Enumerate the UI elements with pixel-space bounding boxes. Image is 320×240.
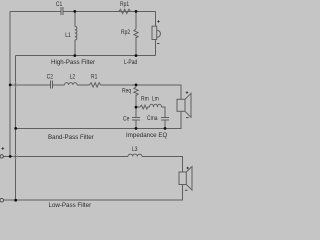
svg-text:Rp1: Rp1 bbox=[120, 1, 129, 8]
svg-text:L2: L2 bbox=[70, 74, 76, 81]
midrange + mark bbox=[186, 91, 188, 93]
wire band-pass row y=84.5 bbox=[10, 85, 181, 99]
junction Ce bottom bbox=[135, 127, 138, 130]
hop crossing BP row over -bus bbox=[14, 83, 18, 87]
wire Rm-Lm branch row y=107 bbox=[136, 107, 165, 128]
inductor L3 bbox=[128, 154, 142, 156]
junction BP input on +bus bbox=[9, 84, 12, 87]
svg-text:Low-Pass Filter: Low-Pass Filter bbox=[49, 202, 92, 209]
svg-text:L1: L1 bbox=[65, 32, 71, 39]
wire L1 branch vertical bbox=[74, 11, 76, 55]
resistor R1 bbox=[90, 83, 101, 87]
resistor Rp2 bbox=[134, 29, 138, 38]
svg-text:Lm: Lm bbox=[152, 96, 159, 103]
svg-text:Ce: Ce bbox=[123, 116, 129, 123]
wire +bus vertical x=10 bbox=[9, 11, 11, 156]
svg-text:R1: R1 bbox=[91, 74, 97, 81]
hop crossing LP row over -bus bbox=[14, 154, 18, 158]
input + terminal bbox=[0, 155, 3, 158]
woofer speaker bbox=[179, 167, 192, 191]
wire low-pass row y=156 bbox=[3, 156, 182, 172]
svg-text:C2: C2 bbox=[47, 74, 53, 81]
capacitor C1 bbox=[61, 7, 63, 15]
junction LPF input on +bus bbox=[9, 155, 12, 158]
inductor L2 bbox=[64, 83, 77, 85]
wire Req-Ce branch vertical bbox=[135, 85, 137, 128]
junction C1-L1 bbox=[73, 10, 76, 13]
svg-text:High-Pass Filter: High-Pass Filter bbox=[51, 59, 95, 66]
junction Cma bottom bbox=[164, 127, 167, 130]
input + label bbox=[1, 147, 4, 150]
junction Req top bbox=[135, 84, 138, 87]
wire top rail (HPF input, y=11) bbox=[10, 10, 155, 12]
svg-text:L-Pad: L-Pad bbox=[124, 60, 137, 67]
wire Rp2 branch vertical bbox=[135, 11, 137, 55]
input - terminal bbox=[0, 198, 4, 202]
resistor Rp1 bbox=[119, 9, 131, 13]
capacitor C2 bbox=[50, 81, 52, 89]
svg-text:Rm: Rm bbox=[141, 96, 149, 103]
junction EQ rail on -bus bbox=[14, 127, 17, 130]
svg-text:Rp2: Rp2 bbox=[121, 30, 130, 37]
svg-text:Req: Req bbox=[122, 88, 131, 95]
capacitor Ce bbox=[132, 118, 140, 121]
junction Rm branch bbox=[135, 106, 138, 109]
junction bottom rail on -bus bbox=[14, 199, 17, 202]
junction Rp2 bottom bbox=[135, 54, 138, 57]
junction L1 bottom bbox=[73, 54, 76, 57]
capacitor Cma bbox=[161, 118, 169, 121]
inductor Lm bbox=[150, 104, 162, 107]
wire HPF bottom rail y=55.5 bbox=[16, 55, 156, 57]
midrange speaker bbox=[177, 93, 191, 117]
svg-text:Impedance EQ: Impedance EQ bbox=[126, 132, 167, 139]
svg-text:Band-Pass Filter: Band-Pass Filter bbox=[48, 134, 94, 141]
tweeter - mark bbox=[157, 43, 159, 45]
tweeter + mark bbox=[157, 20, 159, 22]
midrange - mark bbox=[186, 117, 189, 119]
junction Rp1-Rp2 bbox=[135, 10, 138, 13]
woofer - mark bbox=[185, 189, 187, 191]
inductor L1 bbox=[75, 26, 77, 40]
resistor Req bbox=[134, 87, 138, 96]
wire tweeter branch vertical bbox=[155, 11, 157, 55]
wire bottom rail y=200 bbox=[4, 185, 183, 201]
wire EQ bottom rail y=128.4 bbox=[16, 111, 181, 128]
svg-text:C1: C1 bbox=[56, 1, 62, 8]
resistor Rm bbox=[140, 105, 148, 109]
svg-text:Cma: Cma bbox=[147, 115, 158, 122]
tweeter speaker bbox=[152, 26, 160, 39]
wire -bus vertical x=16 bbox=[15, 56, 17, 201]
woofer + mark bbox=[187, 167, 189, 169]
svg-text:L3: L3 bbox=[132, 146, 138, 153]
